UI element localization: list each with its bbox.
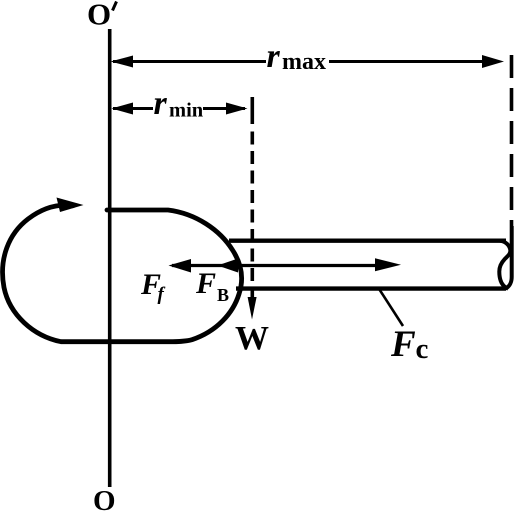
label r_max: [267, 38, 327, 75]
right dashed extension line: [510, 55, 514, 226]
W arrow (down): [248, 297, 257, 320]
axis line O-O': [108, 29, 112, 487]
label O': [87, 0, 117, 32]
rod end loop: [499, 241, 510, 289]
label r_min: [154, 85, 204, 122]
left dashed line (through W) with solid tick at top: [251, 97, 255, 297]
rod top edge: [229, 238, 506, 242]
label F_B: [195, 267, 229, 305]
arrowhead F_f (left): [169, 259, 192, 273]
svg-text:r: r: [154, 85, 168, 122]
svg-text:O: O: [87, 0, 111, 32]
label F_f: [140, 268, 166, 305]
svg-text:c: c: [416, 333, 429, 365]
svg-text:f: f: [158, 284, 166, 305]
svg-text:min: min: [169, 100, 204, 122]
svg-text:F: F: [195, 267, 216, 300]
rod bottom edge: [236, 286, 506, 290]
capsule body outline + rotation arc (one stroke): [3, 205, 242, 342]
svg-text:B: B: [217, 285, 229, 305]
svg-text:O: O: [93, 485, 116, 512]
leader line to F_c: [379, 288, 404, 326]
force line (shared shaft): [172, 264, 378, 267]
svg-text:max: max: [282, 49, 326, 75]
rotation arrowhead: [57, 198, 84, 213]
dimension line r_max: [111, 55, 505, 68]
svg-text:F: F: [390, 324, 416, 365]
label F_c: [390, 324, 429, 365]
svg-text:W: W: [235, 320, 269, 357]
arrowhead F_B (left): [218, 259, 239, 273]
arrowhead F_c (right): [375, 258, 401, 271]
dimension line r_min: [112, 103, 248, 115]
svg-text:r: r: [267, 38, 281, 75]
